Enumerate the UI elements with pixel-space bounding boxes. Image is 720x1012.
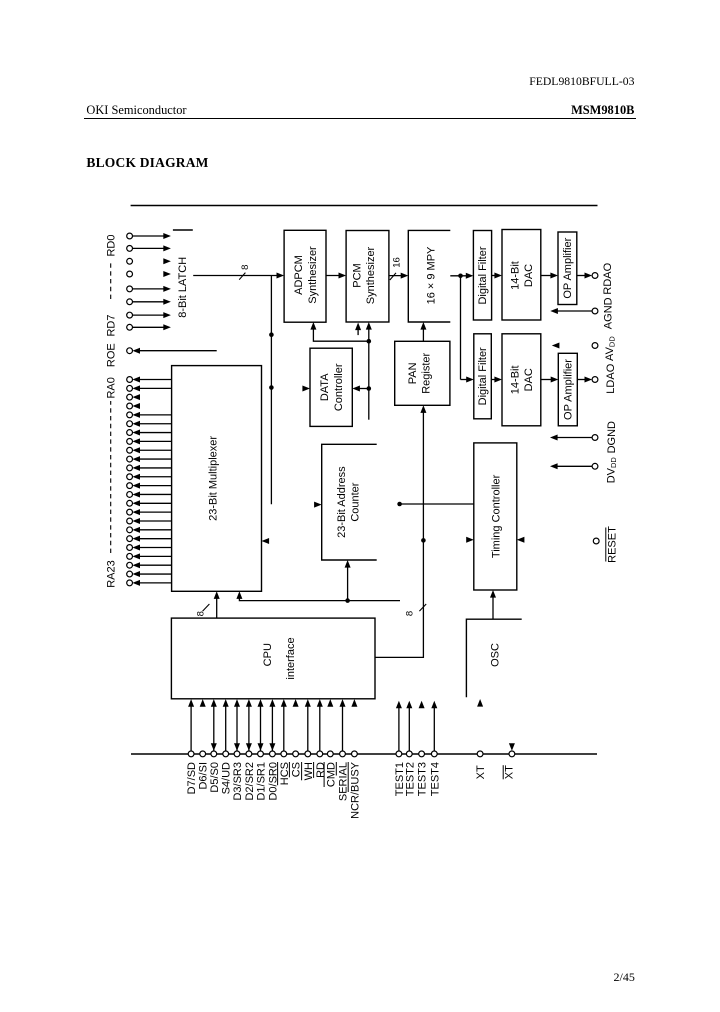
svg-text:TEST3: TEST3 bbox=[417, 762, 429, 796]
terminal RD0 circle bbox=[127, 233, 133, 239]
wire RD6 to 8-Bit LATCH bbox=[133, 314, 168, 316]
overline on label CS bbox=[288, 762, 290, 777]
wire into Timing Controller left (from 8-bus junction) bbox=[400, 503, 474, 505]
block 8-Bit LATCH (only right edge drawn) bbox=[173, 229, 193, 231]
wire 14-Bit DAC R to OP Amplifier R bbox=[541, 275, 555, 277]
arrowhead CS into CPU interface (no wire drawn) bbox=[293, 699, 299, 707]
arrowhead D2/SR2 back toward pin bbox=[246, 743, 252, 751]
arrowhead D5/S0 back toward pin bbox=[211, 743, 217, 751]
arrowhead into Timing Controller top (no wire drawn) bbox=[466, 537, 474, 543]
header company OKI Semiconductor bbox=[86, 103, 186, 118]
arrowhead into Multiplexer bottom from Address Counter (no wire drawn) bbox=[262, 538, 270, 544]
wire RA13 from 23-Bit Multiplexer bbox=[140, 493, 172, 495]
terminal RA21 circle bbox=[127, 562, 133, 568]
arrowhead D6/SI into CPU interface (no wire drawn) bbox=[200, 699, 206, 707]
svg-text:TEST2: TEST2 bbox=[404, 762, 416, 796]
bus slash on latch bus bbox=[239, 273, 245, 280]
wire 8-bit bus CPU interface to Multiplexer bbox=[216, 595, 218, 619]
wire branch to ADPCM Synthesizer input bbox=[313, 325, 368, 341]
arrowhead XT into OSC (no wire drawn) bbox=[477, 699, 483, 707]
terminal S4/UD circle bbox=[223, 751, 229, 757]
wire MPY to Digital Filter R bbox=[450, 275, 470, 277]
terminal DVDD circle bbox=[592, 463, 598, 469]
terminal AGND circle bbox=[592, 308, 598, 314]
terminal RA1 circle bbox=[127, 385, 133, 391]
svg-text:Synthesizer: Synthesizer bbox=[365, 246, 377, 304]
overline on label NCR/BUSY bbox=[347, 762, 349, 792]
terminal SERIAL circle bbox=[340, 751, 346, 757]
wire ROE from internal (arrow up into pin) bbox=[140, 350, 217, 352]
svg-text:TEST4: TEST4 bbox=[429, 762, 441, 796]
terminal NCR/BUSY circle bbox=[352, 751, 358, 757]
terminal RD1 circle bbox=[127, 246, 133, 252]
block PAN Register bbox=[395, 341, 450, 405]
wire S4/UD to CPU interface bbox=[225, 703, 227, 751]
bus slash on 16-bit bus bbox=[390, 273, 396, 280]
svg-text:CPU: CPU bbox=[262, 643, 274, 666]
wire DVDD pin into chip (arrow up, free end) bbox=[554, 465, 592, 467]
wire RA15 from 23-Bit Multiplexer bbox=[140, 511, 172, 513]
block Digital Filter L bbox=[474, 334, 492, 419]
svg-text:RD7: RD7 bbox=[105, 314, 117, 336]
terminal RA23 circle bbox=[127, 580, 133, 586]
wire D0/SR0 to CPU interface bbox=[271, 703, 273, 751]
terminal D6/SI circle bbox=[200, 751, 206, 757]
svg-text:16: 16 bbox=[392, 257, 403, 268]
block 23-Bit Address Counter (bottom-landscape edge not drawn) bbox=[322, 444, 377, 560]
header doc number FEDL9810BFULL-03 bbox=[529, 75, 634, 88]
terminal RA18 circle bbox=[127, 536, 133, 542]
terminal RA15 circle bbox=[127, 509, 133, 515]
wire OP Amplifier L to LDAO pin bbox=[577, 379, 589, 381]
svg-text:CS: CS bbox=[291, 762, 303, 777]
block 16 x 9 MPY (bottom edge not drawn) bbox=[408, 230, 450, 322]
svg-text:16 × 9 MPY: 16 × 9 MPY bbox=[425, 246, 437, 304]
terminal RA19 circle bbox=[127, 545, 133, 551]
svg-text:RA0: RA0 bbox=[105, 377, 117, 398]
wire 16-bit bus PCM to 16x9 MPY bbox=[389, 275, 405, 277]
terminal RA14 circle bbox=[127, 500, 133, 506]
wire RA4 from 23-Bit Multiplexer bbox=[140, 414, 172, 416]
wire RA20 from 23-Bit Multiplexer bbox=[140, 555, 172, 557]
terminal RA12 circle bbox=[127, 483, 133, 489]
block 23-Bit Multiplexer bbox=[172, 366, 262, 592]
svg-text:RA23: RA23 bbox=[105, 560, 117, 588]
terminal CS circle bbox=[293, 751, 299, 757]
terminal D3/SR3 circle bbox=[234, 751, 240, 757]
bus slash on CPU-PAN bus bbox=[419, 604, 426, 611]
block Digital Filter R bbox=[473, 231, 491, 321]
wire from junction into Address Counter left side bbox=[347, 563, 349, 600]
svg-text:interface: interface bbox=[285, 637, 297, 679]
wire stub into PCM Synthesizer (free end) bbox=[357, 326, 359, 335]
wire RA7 from 23-Bit Multiplexer bbox=[140, 440, 172, 442]
junction dot at top of Timing Controller feed bbox=[397, 502, 402, 507]
wire D3/SR3 to CPU interface bbox=[236, 703, 238, 751]
wire RA6 from 23-Bit Multiplexer bbox=[140, 432, 172, 434]
svg-text:OP Amplifier: OP Amplifier bbox=[562, 237, 574, 298]
svg-text:DGND: DGND bbox=[606, 421, 618, 453]
wire branch MPY output to Digital Filter L bbox=[460, 276, 462, 380]
svg-text:DAC: DAC bbox=[523, 264, 535, 287]
svg-text:ROE: ROE bbox=[105, 343, 117, 367]
terminal RESET circle bbox=[593, 538, 599, 544]
svg-text:RD0: RD0 bbox=[105, 234, 117, 256]
arrowhead RESET into Timing Controller (no wire drawn) bbox=[517, 537, 525, 543]
wire RA12 from 23-Bit Multiplexer bbox=[140, 485, 172, 487]
svg-text:8: 8 bbox=[405, 611, 416, 616]
wire RA14 from 23-Bit Multiplexer bbox=[140, 502, 172, 504]
wire TEST1 into chip (free end) bbox=[398, 704, 400, 751]
svg-text:NCR/BUSY: NCR/BUSY bbox=[349, 761, 361, 819]
header part number MSM9810B bbox=[571, 103, 634, 118]
terminal RA6 circle bbox=[127, 430, 133, 436]
svg-text:XT: XT bbox=[475, 765, 487, 779]
wire RD4 to 8-Bit LATCH bbox=[133, 288, 168, 290]
terminal HCS circle bbox=[281, 751, 287, 757]
block CPU interface bbox=[171, 618, 375, 699]
terminal D1/SR1 circle bbox=[258, 751, 264, 757]
svg-text:Register: Register bbox=[421, 352, 433, 393]
terminal DGND circle bbox=[592, 435, 598, 441]
arrowhead RD2 into 8-Bit LATCH (no wire drawn) bbox=[163, 258, 171, 264]
block OP Amplifier L bbox=[558, 353, 577, 426]
wire RA1 from 23-Bit Multiplexer bbox=[140, 387, 172, 389]
wire RA18 from 23-Bit Multiplexer bbox=[140, 538, 172, 540]
terminal RA17 circle bbox=[127, 527, 133, 533]
terminal TEST2 circle bbox=[406, 751, 412, 757]
wire WH to CPU interface bbox=[307, 703, 309, 751]
arrowhead into DATA Controller top (no wire drawn) bbox=[302, 386, 310, 392]
svg-text:Counter: Counter bbox=[350, 482, 362, 521]
terminal WH circle bbox=[305, 751, 311, 757]
junction dot on counter bus bbox=[345, 598, 350, 603]
svg-text:OSC: OSC bbox=[489, 643, 501, 667]
block Timing Controller bbox=[474, 443, 517, 590]
block 14-Bit DAC R bbox=[502, 230, 541, 321]
arrowhead into Address Counter top (no wire drawn) bbox=[314, 502, 322, 508]
arrowhead D1/SR1 back toward pin bbox=[258, 743, 264, 751]
wire RD1 to 8-Bit LATCH bbox=[133, 247, 168, 249]
svg-text:D1/SR1: D1/SR1 bbox=[256, 762, 268, 801]
wire RA8 from 23-Bit Multiplexer bbox=[140, 449, 172, 451]
svg-text:Synthesizer: Synthesizer bbox=[307, 246, 319, 304]
block PCM Synthesizer bbox=[346, 231, 389, 323]
terminal TEST3 circle bbox=[419, 751, 425, 757]
svg-text:D3/SR3: D3/SR3 bbox=[232, 762, 244, 801]
svg-text:Digital Filter: Digital Filter bbox=[477, 347, 489, 405]
wire Address Counter bottom bus to Multiplexer bbox=[239, 595, 400, 601]
svg-text:8-Bit LATCH: 8-Bit LATCH bbox=[177, 257, 189, 318]
svg-text:D7/SD: D7/SD bbox=[186, 762, 198, 794]
terminal RA16 circle bbox=[127, 518, 133, 524]
wire D7/SD to CPU interface bbox=[190, 703, 192, 751]
svg-text:D5/S0: D5/S0 bbox=[209, 762, 221, 793]
arrowhead RA3 at pin (no wire drawn) bbox=[132, 403, 140, 409]
terminal RD2 circle bbox=[127, 258, 133, 264]
terminal RA3 circle bbox=[127, 403, 133, 409]
svg-text:S4/UD: S4/UD bbox=[221, 762, 233, 794]
junction dot on bus arm (hidden branch to ADPCM area) bbox=[269, 332, 274, 337]
terminal XT circle bbox=[477, 751, 483, 757]
terminal RA7 circle bbox=[127, 439, 133, 445]
block ADPCM Synthesizer bbox=[284, 230, 326, 322]
block OSC (top and right edges only) bbox=[466, 619, 521, 697]
svg-text:D2/SR2: D2/SR2 bbox=[244, 762, 256, 801]
wire RA0 from 23-Bit Multiplexer bbox=[140, 379, 172, 381]
svg-text:DATA: DATA bbox=[319, 373, 331, 401]
svg-text:AGND: AGND bbox=[603, 297, 615, 329]
terminal ROE circle bbox=[127, 348, 133, 354]
wire bottom CPU-bus rail (portrait bottom horizontal line) bbox=[131, 753, 597, 755]
terminal RA9 circle bbox=[127, 456, 133, 462]
svg-text:8: 8 bbox=[240, 265, 251, 270]
dashed line between RD0 and RD7 labels bbox=[110, 262, 112, 299]
wire D2/SR2 to CPU interface bbox=[248, 703, 250, 751]
wire Digital Filter R to 14-Bit DAC R bbox=[492, 275, 499, 277]
svg-text:Digital Filter: Digital Filter bbox=[477, 246, 489, 304]
terminal D7/SD circle bbox=[188, 751, 194, 757]
arrowhead AVDD into chip (no wire drawn) bbox=[552, 343, 560, 349]
arrowhead XTbar toward pin (no wire drawn) bbox=[509, 743, 515, 751]
terminal XTbar circle bbox=[509, 751, 515, 757]
terminal RA11 circle bbox=[127, 474, 133, 480]
terminal RD7 circle bbox=[127, 324, 133, 330]
wire D5/S0 to CPU interface bbox=[213, 703, 215, 751]
wire TEST4 into chip (free end) bbox=[433, 704, 435, 751]
junction dot MPY output bbox=[458, 274, 463, 279]
dashed line between RA0 and RA23 labels bbox=[110, 401, 112, 553]
wire RA21 from 23-Bit Multiplexer bbox=[140, 564, 172, 566]
terminal RA4 circle bbox=[127, 412, 133, 418]
svg-text:23-Bit Multiplexer: 23-Bit Multiplexer bbox=[208, 436, 220, 521]
junction dot on feed line (branch to DATA Controller) bbox=[367, 386, 372, 391]
svg-text:LDAO: LDAO bbox=[605, 363, 617, 393]
terminal RA10 circle bbox=[127, 465, 133, 471]
wire RD5 to 8-Bit LATCH bbox=[133, 301, 168, 303]
wire RA22 from 23-Bit Multiplexer bbox=[140, 573, 172, 575]
terminal RD5 circle bbox=[127, 299, 133, 305]
terminal D2/SR2 circle bbox=[246, 751, 252, 757]
wire ADPCM to PCM Synthesizer bbox=[326, 275, 343, 277]
bus slash on CPU-multiplexer bus bbox=[203, 604, 210, 611]
arrowhead RA2 at pin (no wire drawn) bbox=[132, 394, 140, 400]
svg-text:8: 8 bbox=[195, 611, 206, 616]
svg-text:WH: WH bbox=[303, 762, 315, 780]
terminal TEST4 circle bbox=[431, 751, 437, 757]
terminal RA5 circle bbox=[127, 421, 133, 427]
wire RA16 from 23-Bit Multiplexer bbox=[140, 520, 172, 522]
overline on label HCS bbox=[277, 762, 279, 785]
svg-text:XT: XT bbox=[504, 765, 516, 779]
wire RD to CPU interface bbox=[319, 703, 321, 751]
junction dot on CPU-PAN bus (hidden branch to Timing Controller) bbox=[421, 538, 426, 543]
block DATA Controller bbox=[310, 348, 352, 426]
terminal RA2 circle bbox=[127, 394, 133, 400]
arrowhead RD3 into 8-Bit LATCH (no wire drawn) bbox=[163, 271, 171, 277]
junction dot on feed line (branch to ADPCM) bbox=[367, 339, 372, 344]
wire PAN Register to MPY bbox=[422, 325, 424, 341]
svg-text:14-Bit: 14-Bit bbox=[509, 365, 521, 394]
svg-text:ADPCM: ADPCM bbox=[293, 255, 305, 295]
terminal CMD circle bbox=[327, 751, 333, 757]
wire 8-bit bus from 8-Bit LATCH to ADPCM Synthesizer bbox=[193, 275, 281, 277]
wire RA11 from 23-Bit Multiplexer bbox=[140, 476, 172, 478]
terminal AVDD circle bbox=[592, 343, 598, 349]
svg-text:Timing Controller: Timing Controller bbox=[490, 474, 502, 558]
wire 8-bit bus CPU interface to PAN Register bbox=[375, 409, 423, 658]
arrowhead TEST3 (no wire drawn) bbox=[419, 701, 425, 709]
wire branch up into DATA Controller bottom bbox=[356, 388, 369, 390]
wire AGND pin into chip (arrow up, free end) bbox=[554, 310, 592, 312]
wire RA10 from 23-Bit Multiplexer bbox=[140, 467, 172, 469]
arrowhead NCR/BUSY into CPU interface (no wire drawn) bbox=[351, 699, 357, 707]
svg-text:14-Bit: 14-Bit bbox=[509, 261, 521, 290]
wire RA23 from 23-Bit Multiplexer bbox=[140, 582, 172, 584]
terminal RDAO circle bbox=[592, 273, 598, 279]
wire Digital Filter L to 14-Bit DAC L bbox=[491, 379, 498, 381]
overline on label CMD bbox=[323, 762, 325, 787]
overline on label WH bbox=[301, 762, 303, 780]
terminal RD4 circle bbox=[127, 286, 133, 292]
overline on label SERIAL bbox=[335, 762, 337, 776]
wire RD7 to 8-Bit LATCH bbox=[133, 326, 168, 328]
wire bus arm to multiplexer area (free left end) bbox=[270, 276, 272, 505]
block 14-Bit DAC L bbox=[502, 334, 541, 426]
terminal RA22 circle bbox=[127, 571, 133, 577]
svg-text:DAC: DAC bbox=[523, 368, 535, 391]
wire RA17 from 23-Bit Multiplexer bbox=[140, 529, 172, 531]
terminal RD circle bbox=[317, 751, 323, 757]
terminal RA13 circle bbox=[127, 492, 133, 498]
wire OSC to Timing Controller bbox=[492, 593, 494, 619]
terminal RA0 circle bbox=[127, 377, 133, 383]
wire TEST2 into chip (free end) bbox=[408, 704, 410, 751]
terminal D5/S0 circle bbox=[211, 751, 217, 757]
junction dot on bus arm (hidden branch to DATA Controller) bbox=[269, 385, 274, 390]
terminal RD3 circle bbox=[127, 271, 133, 277]
header rule bbox=[84, 118, 636, 120]
block OP Amplifier R bbox=[558, 232, 577, 305]
wire DGND pin into chip (arrow up, free end) bbox=[554, 437, 592, 439]
svg-text:OP Amplifier: OP Amplifier bbox=[563, 359, 575, 420]
svg-text:CMD: CMD bbox=[325, 762, 337, 787]
svg-text:PAN: PAN bbox=[407, 362, 419, 384]
wire RD0 to 8-Bit LATCH bbox=[133, 235, 168, 237]
wire D1/SR1 to CPU interface bbox=[260, 703, 262, 751]
svg-text:RESET: RESET bbox=[606, 526, 618, 563]
svg-text:AVDD: AVDD bbox=[604, 336, 617, 361]
arrowhead CMD into CPU interface (no wire drawn) bbox=[327, 699, 333, 707]
arrowhead D0/SR0 back toward pin bbox=[269, 743, 275, 751]
svg-text:RDAO: RDAO bbox=[602, 262, 614, 294]
overline on label RD bbox=[313, 762, 315, 778]
wire RA5 from 23-Bit Multiplexer bbox=[140, 423, 172, 425]
wire SERIAL to CPU interface bbox=[342, 703, 344, 751]
wire top rail (portrait top horizontal line) bbox=[131, 205, 598, 207]
svg-text:DVDD: DVDD bbox=[605, 457, 618, 484]
wire long feed line to PCM Synthesizer bottom-left bbox=[368, 325, 370, 419]
svg-text:23-Bit Address: 23-Bit Address bbox=[336, 466, 348, 538]
terminal D0/SR0 circle bbox=[270, 751, 276, 757]
terminal RD6 circle bbox=[127, 312, 133, 318]
page number 2/45 bbox=[614, 970, 635, 985]
title BLOCK DIAGRAM bbox=[86, 155, 208, 171]
wire RA19 from 23-Bit Multiplexer bbox=[140, 547, 172, 549]
terminal RA20 circle bbox=[127, 553, 133, 559]
svg-text:Controller: Controller bbox=[333, 363, 345, 411]
terminal TEST1 circle bbox=[396, 751, 402, 757]
wire 14-Bit DAC L to OP Amplifier L bbox=[541, 379, 555, 381]
terminal LDAO circle bbox=[592, 377, 598, 383]
svg-text:PCM: PCM bbox=[352, 263, 364, 287]
terminal RA8 circle bbox=[127, 447, 133, 453]
wire HCS to CPU interface bbox=[283, 703, 285, 751]
wire RA9 from 23-Bit Multiplexer bbox=[140, 458, 172, 460]
arrowhead D3/SR3 back toward pin bbox=[234, 743, 240, 751]
wire OP Amplifier R to RDAO pin bbox=[577, 275, 589, 277]
